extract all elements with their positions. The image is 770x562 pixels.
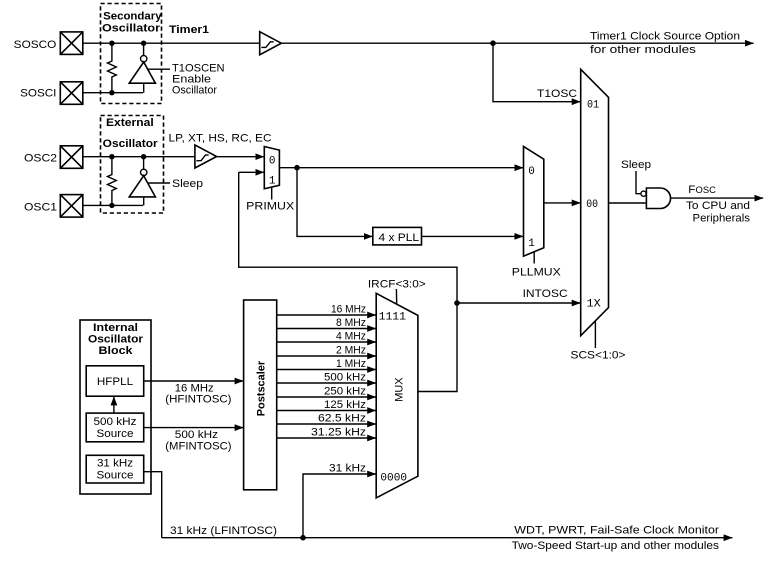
wire SOSCO to buffer (83, 42, 260, 44)
node junction 31 kHz branch (300, 535, 306, 541)
svg-text:OSC2: OSC2 (24, 152, 57, 164)
svg-text:16 MHz: 16 MHz (331, 304, 366, 316)
svg-text:Oscillator: Oscillator (102, 23, 161, 35)
svg-text:Source: Source (97, 470, 134, 482)
leader line PRIMUX (271, 187, 273, 199)
svg-text:500 kHz: 500 kHz (94, 416, 137, 428)
svg-text:IRCF<3:0>: IRCF<3:0> (368, 279, 426, 291)
svg-text:Secondary: Secondary (103, 10, 162, 22)
svg-text:Sleep: Sleep (172, 178, 203, 190)
svg-text:31 kHz (LFINTOSC): 31 kHz (LFINTOSC) (170, 525, 277, 537)
svg-text:Oscillator: Oscillator (172, 85, 217, 97)
block HFPLL (86, 366, 144, 396)
svg-text:Peripherals: Peripherals (693, 213, 751, 225)
svg-text:Oscillator: Oscillator (88, 334, 144, 346)
mux PRIMUX (264, 147, 279, 189)
svg-text:31 kHz: 31 kHz (329, 463, 366, 475)
svg-text:500 kHz: 500 kHz (324, 372, 366, 384)
and gate U-FOSC (646, 188, 670, 209)
wire T1OSC branch to SCS mux (493, 43, 581, 101)
resistor (secondary osc feedback) (108, 43, 117, 92)
svg-text:Timer1: Timer1 (169, 24, 209, 36)
svg-text:0000: 0000 (380, 473, 407, 485)
svg-text:2 MHz: 2 MHz (336, 345, 366, 357)
svg-text:1111: 1111 (379, 312, 407, 324)
wire 16 MHz tap (277, 314, 376, 316)
inverter external oscillator (143, 157, 145, 170)
svg-text:Postscaler: Postscaler (255, 360, 267, 416)
pin pad SOSCO (60, 32, 83, 55)
node junction T1OSC branch (490, 40, 496, 46)
wire Sleep to gate (636, 171, 640, 194)
node junction SOSCO-resistor (109, 41, 114, 46)
svg-text:FOSC: FOSC (688, 184, 716, 196)
svg-text:62.5 kHz: 62.5 kHz (318, 413, 366, 425)
dashed box External Oscillator (101, 116, 164, 214)
svg-text:(HFINTOSC): (HFINTOSC) (165, 394, 231, 406)
svg-text:T1OSC: T1OSC (537, 88, 577, 100)
wire 2 MHz tap (277, 355, 376, 357)
wire 62.5 kHz tap (277, 423, 376, 425)
leader line PLLMUX (533, 252, 535, 264)
svg-text:1X: 1X (587, 299, 602, 311)
svg-text:OSC1: OSC1 (24, 202, 57, 214)
svg-text:Block: Block (99, 345, 134, 357)
wire IRCF mux output to INTOSC (418, 303, 457, 392)
wire 8 MHz tap (277, 328, 376, 330)
callout line T1OSCEN (148, 68, 171, 70)
wire HFPLL to postscaler (16 MHz) (144, 380, 244, 382)
svg-text:PRIMUX: PRIMUX (246, 201, 295, 213)
svg-text:External: External (106, 117, 154, 129)
wire branch to 4xPLL (297, 168, 373, 237)
svg-text:WDT, PWRT, Fail-Safe Clock Mon: WDT, PWRT, Fail-Safe Clock Monitor (514, 525, 719, 537)
pin pad OSC1 (60, 195, 83, 218)
svg-text:00: 00 (586, 199, 598, 211)
wire buffer to PRIMUX input 0 (217, 156, 265, 158)
wire SCS mux 00 output to AND gate (609, 202, 647, 204)
svg-text:for other modules: for other modules (590, 44, 697, 56)
svg-text:500 kHz: 500 kHz (175, 429, 218, 441)
wire 250 kHz tap (277, 396, 376, 398)
svg-text:LP, XT, HS, RC, EC: LP, XT, HS, RC, EC (169, 133, 272, 145)
svg-text:Internal: Internal (93, 322, 138, 334)
wire SOSCI row (83, 92, 143, 94)
block Postscaler (244, 300, 277, 490)
wire IRCF select pointer (395, 289, 397, 305)
wire 1 MHz tap (277, 369, 376, 371)
wire 4 MHz tap (277, 341, 376, 343)
svg-text:SOSCO: SOSCO (14, 39, 57, 51)
node junction OSC1-resistor (109, 203, 114, 208)
block 500 kHz Source (86, 413, 144, 442)
inverter bubble (sleep input) (641, 191, 646, 196)
wire 31 kHz LFINTOSC line (162, 537, 733, 539)
pin pad OSC2 (60, 146, 83, 169)
svg-text:1 MHz: 1 MHz (336, 358, 366, 370)
mux SCS clock select (581, 69, 609, 335)
wire 500kHz source to HFPLL (113, 397, 115, 414)
wire 500 kHz tap (277, 382, 376, 384)
svg-text:4 x PLL: 4 x PLL (379, 232, 420, 244)
node junction SOSCO-inverter (141, 41, 146, 46)
svg-text:(MFINTOSC): (MFINTOSC) (165, 441, 231, 453)
wire Timer1 clock line (281, 42, 753, 44)
svg-text:SCS<1:0>: SCS<1:0> (571, 349, 626, 361)
svg-text:Source: Source (97, 428, 134, 440)
resistor (external osc feedback) (108, 157, 117, 206)
wire PRIMUX output (279, 167, 523, 169)
svg-text:8 MHz: 8 MHz (336, 317, 366, 329)
buffer external clock (schmitt) (195, 145, 217, 168)
wire 31 kHz source to LFINTOSC line (144, 472, 162, 538)
callout line Sleep (ext osc) (148, 182, 171, 184)
svg-text:Sleep: Sleep (621, 159, 651, 171)
box Internal Oscillator Block (80, 320, 151, 494)
pin pad SOSCI (60, 82, 83, 105)
wire PLL to PLLMUX input 1 (422, 235, 524, 237)
wire 500 kHz to postscaler (144, 427, 244, 429)
svg-text:PLLMUX: PLLMUX (512, 266, 562, 278)
wire Fosc output (671, 197, 764, 199)
wire OSC2 to buffer (83, 156, 195, 158)
svg-text:125 kHz: 125 kHz (324, 399, 366, 411)
wire INTOSC to PRIMUX input 1 (239, 171, 264, 173)
node junction PRIMUX out / PLL branch (294, 165, 300, 171)
buffer U-T1 (schmitt) (260, 32, 282, 55)
node junction OSC2-resistor (109, 154, 114, 159)
svg-text:SOSCI: SOSCI (20, 87, 56, 99)
svg-text:31 kHz: 31 kHz (97, 458, 133, 470)
svg-text:To CPU and: To CPU and (686, 200, 750, 212)
svg-text:01: 01 (587, 99, 599, 111)
svg-text:HFPLL: HFPLL (97, 376, 133, 388)
svg-text:INTOSC: INTOSC (523, 288, 568, 300)
svg-text:250 kHz: 250 kHz (324, 386, 366, 398)
dashed box Secondary Oscillator (101, 4, 162, 104)
inverter T1 oscillator (bubble on top, triangle up) (143, 43, 145, 55)
block 31 kHz Source (86, 455, 144, 483)
mux IRCF internal osc select (376, 293, 418, 498)
wire 125 kHz tap (277, 410, 376, 412)
wire OSC1 row (83, 204, 143, 206)
svg-text:Two-Speed Start-up and other m: Two-Speed Start-up and other modules (512, 540, 720, 552)
wire PLLMUX output to SCS mux 00 (544, 202, 581, 204)
wire INTOSC to SCS mux 1X (457, 302, 581, 304)
svg-text:Timer1 Clock Source Option: Timer1 Clock Source Option (590, 31, 740, 43)
node junction SOSCI-resistor (109, 90, 114, 95)
block 4 x PLL (373, 227, 422, 245)
svg-text:MUX: MUX (393, 377, 405, 402)
svg-text:4 MHz: 4 MHz (336, 331, 366, 343)
wire SCS select tail (594, 321, 596, 348)
svg-text:0: 0 (269, 155, 276, 167)
svg-text:Oscillator: Oscillator (103, 138, 159, 150)
wire 31 kHz tap (303, 474, 376, 538)
mux PLLMUX (524, 146, 544, 256)
svg-text:1: 1 (269, 175, 276, 187)
wire 31.25 kHz tap (277, 437, 376, 439)
node junction OSC2-inverter (141, 154, 146, 159)
node junction INTOSC (454, 300, 460, 306)
svg-text:31.25 kHz: 31.25 kHz (311, 427, 366, 439)
svg-text:0: 0 (528, 166, 535, 178)
svg-text:1: 1 (528, 238, 535, 250)
